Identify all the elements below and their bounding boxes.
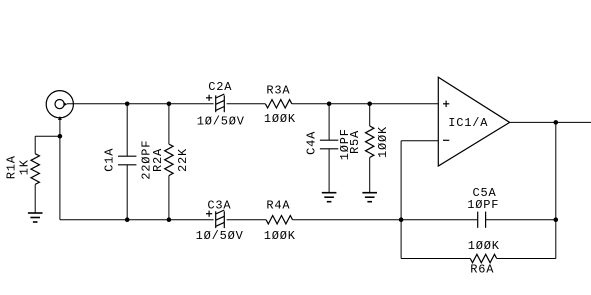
capacitor C3A electrolytic (196, 199, 244, 243)
svg-text:1Ø/5ØV: 1Ø/5ØV (196, 229, 244, 243)
node inverting-bottom junction (399, 217, 404, 222)
svg-text:1K: 1K (17, 159, 31, 175)
wire R6A net left (401, 258, 470, 260)
svg-text:1ØØK: 1ØØK (264, 229, 296, 243)
ground R5A (362, 193, 377, 202)
node R2A top (167, 102, 172, 107)
node R2A bottom (167, 217, 172, 222)
resistor R1A (5, 136, 40, 213)
node C1A top (125, 102, 130, 107)
ground C4A (322, 193, 337, 202)
wire top net (67, 103, 214, 105)
wire R6A net right (497, 258, 556, 260)
node C1A bottom (125, 217, 130, 222)
node jack-R1A junction (58, 134, 63, 139)
svg-text:1ØØK: 1ØØK (376, 126, 390, 158)
capacitor C2A electrolytic (197, 80, 245, 128)
svg-text:C3A: C3A (207, 199, 231, 213)
svg-text:R2A: R2A (151, 148, 165, 172)
ground R1A (28, 213, 43, 222)
resistor R4A (264, 199, 296, 243)
capacitor C4A (304, 104, 352, 193)
wire op-amp output (510, 121, 591, 123)
node output junction (554, 120, 559, 125)
wire feedback right vertical (555, 122, 557, 258)
wire bottom net (60, 219, 214, 221)
svg-text:C1A: C1A (102, 148, 116, 172)
svg-text:1Ø/5ØV: 1Ø/5ØV (197, 114, 245, 128)
wire bottom net C3A to R4A (227, 219, 267, 221)
resistor R6A (468, 239, 500, 277)
wire top net C2A to R3A (227, 103, 266, 105)
svg-text:C4A: C4A (304, 131, 318, 155)
wire inverting vertical (400, 141, 402, 259)
capacitor C5A (467, 186, 499, 228)
wire bottom net C5A to right (486, 219, 556, 221)
capacitor C1A (102, 104, 153, 220)
resistor R2A (151, 104, 190, 220)
wire jack stem (59, 118, 61, 219)
node feedback right junction (554, 217, 559, 222)
node C4A top (327, 102, 332, 107)
resistor R5A (348, 104, 390, 193)
svg-text:1ØPF: 1ØPF (467, 198, 499, 212)
svg-text:R4A: R4A (266, 199, 290, 213)
svg-text:R5A: R5A (348, 130, 362, 154)
wire top net R3A to op-amp (292, 103, 439, 105)
connector J1 input jack (46, 91, 73, 118)
wire bottom net R4A to C5A (293, 219, 478, 221)
svg-text:1ØØK: 1ØØK (264, 112, 296, 126)
wire R1A branch (35, 135, 60, 137)
svg-text:R3A: R3A (266, 84, 290, 98)
svg-text:1ØØK: 1ØØK (468, 239, 500, 253)
svg-text:IC1/A: IC1/A (448, 116, 488, 130)
op-amp IC1/A (438, 77, 509, 166)
resistor R3A (264, 84, 296, 126)
node R5A top (367, 102, 372, 107)
svg-text:R6A: R6A (470, 263, 494, 277)
wire inverting input branch (401, 140, 438, 142)
svg-text:C2A: C2A (208, 80, 232, 94)
svg-text:22K: 22K (176, 148, 190, 172)
